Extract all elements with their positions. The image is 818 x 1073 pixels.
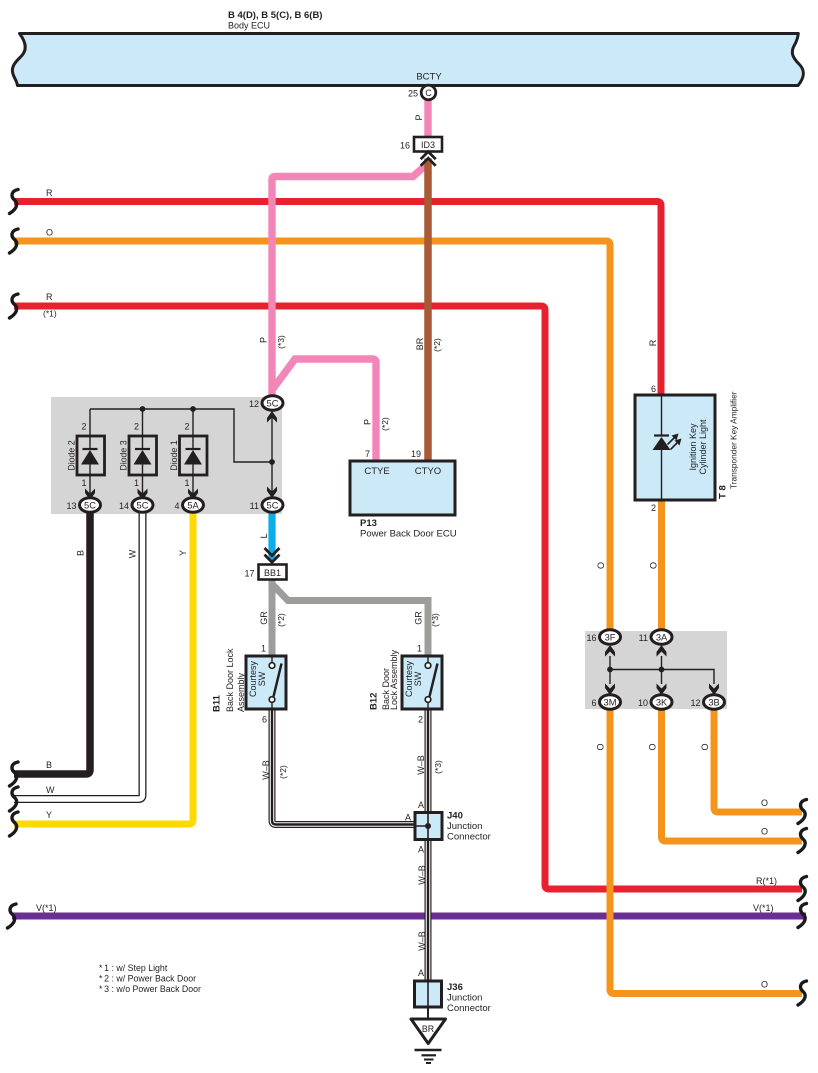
svg-text:Connector: Connector (447, 832, 491, 843)
wire O (T8 pin2 to 3A) (658, 498, 665, 632)
svg-text:5C: 5C (267, 399, 279, 409)
svg-text:O: O (700, 743, 710, 750)
svg-text:2: 2 (184, 422, 189, 432)
wire W-B (*2) (B11 pin6 to J40) (272, 709, 416, 825)
svg-text:V(*1): V(*1) (753, 903, 774, 913)
cut squiggle O right (3B) (798, 800, 807, 824)
wire Y (yellow) (14, 505, 193, 824)
svg-text:(*2): (*2) (276, 613, 286, 627)
svg-text:13: 13 (66, 501, 76, 511)
junction dots (diode block) (140, 406, 146, 412)
diode D3 (119, 422, 157, 489)
svg-text:B: B (46, 760, 52, 770)
cut squiggle O right (3K) (798, 829, 807, 853)
svg-text:Y: Y (46, 810, 52, 820)
svg-text:* 3 : w/o Power Back Door: * 3 : w/o Power Back Door (99, 984, 201, 994)
svg-text:C: C (425, 88, 432, 98)
cut squiggle R top left (10, 190, 19, 214)
svg-text:Diode 2: Diode 2 (67, 440, 77, 470)
ground BR triangle (411, 1019, 446, 1044)
svg-text:BB1: BB1 (264, 568, 281, 578)
svg-text:6: 6 (591, 698, 596, 708)
oval 10-3K (638, 695, 672, 710)
label B11 (212, 648, 247, 712)
svg-text:CTYO: CTYO (415, 466, 441, 477)
svg-text:V(*1): V(*1) (36, 903, 57, 913)
svg-text:3M: 3M (604, 698, 617, 708)
svg-text:P: P (259, 337, 269, 343)
svg-text:14: 14 (119, 501, 129, 511)
arrow into 4-5A (188, 489, 198, 501)
svg-text:P: P (363, 419, 373, 425)
svg-text:1: 1 (261, 644, 266, 654)
svg-text:O: O (649, 562, 659, 569)
svg-text:P: P (414, 114, 424, 120)
svg-text:12: 12 (690, 698, 700, 708)
wire GR (*2) (BB1 to B11) (269, 580, 276, 656)
svg-text:R(*1): R(*1) (756, 876, 777, 886)
svg-text:W: W (46, 785, 55, 795)
svg-text:B12: B12 (369, 693, 380, 710)
label B12 (369, 649, 399, 710)
svg-text:5C: 5C (84, 501, 96, 511)
connector BB1 (244, 565, 286, 580)
svg-text:(*3): (*3) (276, 335, 286, 349)
oval 13-5C (66, 498, 100, 513)
Body ECU bar (12, 34, 803, 86)
svg-text:Cylinder Light: Cylinder Light (698, 419, 708, 475)
svg-text:SW: SW (257, 671, 267, 686)
svg-text:T 8: T 8 (718, 485, 729, 499)
svg-text:5C: 5C (137, 501, 149, 511)
switch B11 (246, 644, 286, 725)
svg-text:7: 7 (365, 449, 370, 459)
label W-B (*3) (416, 755, 443, 775)
svg-text:11: 11 (250, 501, 259, 511)
svg-text:Assembly: Assembly (236, 672, 246, 712)
wire W-B (J40 to J36) (425, 839, 432, 981)
svg-text:Connector: Connector (447, 1003, 491, 1014)
svg-text:CTYE: CTYE (364, 466, 389, 477)
arrow into 3A (up) (657, 645, 667, 657)
wire BR (ID3 to CTYO) (424, 159, 432, 462)
svg-text:Body ECU: Body ECU (228, 21, 270, 31)
svg-text:16: 16 (586, 633, 596, 643)
cut squiggle R(*1) right (798, 877, 807, 901)
wire GR (*3) (BB1 branch to B12) (272, 584, 428, 656)
cut squiggle B left (10, 762, 19, 786)
oval 11-3A (639, 630, 672, 645)
svg-text:5A: 5A (187, 501, 199, 511)
svg-text:19: 19 (411, 449, 421, 459)
connector block background (3F/3A block) (585, 631, 727, 709)
connector block background (diode block) (51, 397, 282, 514)
label T8 (718, 391, 739, 499)
arrow into 3F (up) (605, 645, 615, 657)
cut squiggle R(*1) left (10, 294, 19, 318)
svg-text:Back Door Lock: Back Door Lock (225, 648, 235, 712)
svg-text:* 2 : w/ Power Back Door: * 2 : w/ Power Back Door (99, 974, 196, 984)
wire L (11-5C to BB1) (268, 511, 275, 561)
chevrons (below ID3) (421, 152, 436, 166)
junction dots (3F/3A block) (607, 667, 613, 673)
oval 16-3F (586, 630, 620, 645)
arrow into 13-5C (85, 489, 95, 501)
label BR (*2) (415, 337, 442, 352)
svg-text:A: A (418, 968, 424, 978)
pin 25 C (408, 85, 436, 100)
svg-text:O: O (761, 798, 768, 808)
arrow into 3K (down) (657, 684, 667, 696)
svg-text:2: 2 (418, 715, 423, 725)
svg-text:A: A (418, 800, 424, 810)
wire R (top) (14, 202, 661, 396)
svg-text:B11: B11 (212, 694, 223, 712)
arrow into 11-5C (down) (267, 487, 277, 499)
svg-text:6: 6 (651, 384, 656, 394)
svg-text:Junction: Junction (447, 821, 482, 832)
svg-text:2: 2 (651, 503, 656, 513)
junction J40 (405, 800, 491, 855)
svg-text:SW: SW (413, 671, 423, 686)
cut squiggle Y left (10, 812, 19, 836)
chevrons (above BB1, down) (265, 548, 280, 562)
wire V (*1) (12, 913, 806, 920)
oval 12-5C (249, 396, 283, 411)
wire O (3M to bottom right) (610, 705, 802, 994)
svg-text:3F: 3F (605, 633, 616, 643)
cut squiggle W left (10, 787, 19, 811)
label P (*3) (259, 335, 287, 349)
svg-text:17: 17 (244, 569, 254, 579)
svg-text:(*3): (*3) (433, 760, 443, 774)
svg-text:1: 1 (417, 644, 422, 654)
oval 6-3M (591, 695, 620, 710)
label P (*2) (363, 417, 391, 431)
svg-text:W–B: W–B (417, 931, 427, 951)
node bus (diode block internal wiring) (90, 409, 272, 500)
svg-text:2: 2 (134, 422, 139, 432)
svg-text:(*2): (*2) (432, 338, 442, 352)
svg-text:25: 25 (408, 89, 418, 99)
svg-text:O: O (596, 562, 606, 569)
label GR (*2) (259, 611, 286, 627)
svg-text:11: 11 (639, 633, 648, 643)
cut squiggle O right (3M) (798, 981, 807, 1005)
svg-text:3K: 3K (656, 698, 668, 708)
svg-text:W: W (128, 549, 138, 558)
wire W-B (*3) (B12 pin2 to J40) (425, 709, 432, 813)
svg-text:(*1): (*1) (43, 309, 57, 319)
wire O (3K to right edge) (662, 705, 803, 841)
svg-text:O: O (761, 980, 768, 990)
svg-text:2: 2 (81, 422, 86, 432)
svg-text:A: A (405, 813, 411, 823)
svg-text:ID3: ID3 (421, 140, 435, 150)
svg-text:O: O (596, 743, 606, 750)
arrow into 3B (down) (709, 684, 719, 696)
svg-text:GR: GR (414, 611, 424, 625)
svg-text:O: O (46, 228, 53, 238)
svg-text:(*2): (*2) (380, 417, 390, 431)
wire P (*2) (branch to CTYE) (272, 359, 376, 461)
wire B (black) (14, 505, 90, 774)
wire O (top) (14, 241, 610, 631)
svg-text:BR: BR (415, 337, 425, 350)
svg-text:16: 16 (400, 141, 410, 151)
ground wire (427, 1007, 429, 1019)
svg-text:Power Back Door ECU: Power Back Door ECU (360, 529, 457, 540)
connector ID3 (400, 137, 442, 152)
svg-text:Diode 3: Diode 3 (119, 440, 129, 470)
svg-text:1: 1 (81, 478, 86, 488)
svg-text:P13: P13 (360, 518, 377, 529)
svg-text:* 1 : w/ Step Light: * 1 : w/ Step Light (99, 963, 168, 973)
svg-text:3A: 3A (656, 633, 668, 643)
svg-text:Junction: Junction (447, 993, 482, 1004)
node bus (3F/3A block internal wiring) (610, 656, 714, 684)
svg-text:(*3): (*3) (430, 613, 440, 627)
svg-text:Transponder Key Amplifier: Transponder Key Amplifier (729, 391, 739, 489)
wire P (*3) (ID3 to 12-5C) (272, 165, 426, 397)
svg-text:W–B: W–B (261, 760, 271, 780)
oval 14-5C (119, 498, 153, 513)
svg-text:O: O (648, 743, 658, 750)
svg-text:BR: BR (422, 1024, 434, 1034)
label GR (*3) (414, 611, 441, 627)
svg-text:4: 4 (174, 501, 179, 511)
svg-text:W–B: W–B (417, 865, 427, 885)
svg-text:Lock Assembly: Lock Assembly (389, 649, 399, 710)
arrow into 14-5C (138, 489, 148, 501)
svg-text:Diode 1: Diode 1 (169, 440, 179, 470)
oval 11-5C (250, 498, 283, 513)
svg-text:B: B (76, 550, 86, 556)
svg-text:3B: 3B (708, 698, 719, 708)
svg-text:GR: GR (259, 611, 269, 625)
svg-text:R: R (46, 188, 53, 198)
notes (99, 963, 201, 994)
svg-text:1: 1 (134, 478, 139, 488)
wire W (white) (14, 505, 143, 799)
svg-text:J36: J36 (447, 982, 463, 993)
svg-text:10: 10 (638, 698, 648, 708)
svg-text:A: A (418, 845, 424, 855)
amplifier T8 (635, 395, 715, 500)
switch B12 (402, 644, 442, 725)
svg-text:L: L (259, 533, 269, 538)
label R (*1) left (43, 292, 57, 319)
svg-text:12: 12 (249, 399, 259, 409)
diode D2 (67, 422, 105, 489)
ground symbol (415, 1050, 442, 1063)
wire P (BCTY to ID3) (424, 99, 431, 139)
oval 12-3B (690, 695, 724, 710)
svg-text:(*2): (*2) (278, 765, 288, 779)
wire O (3B to right edge) (714, 705, 802, 812)
svg-text:J40: J40 (447, 811, 463, 822)
svg-text:6: 6 (262, 715, 267, 725)
cut squiggle V left (8, 904, 17, 928)
svg-text:W–B: W–B (416, 755, 426, 775)
ECU P13 (350, 449, 457, 540)
diode D1 (169, 422, 207, 489)
arrow into 12-5C (up) (267, 411, 277, 423)
svg-text:O: O (761, 827, 768, 837)
svg-text:1: 1 (184, 478, 189, 488)
oval 4-5A (174, 498, 203, 513)
svg-text:5C: 5C (267, 501, 279, 511)
junction J36 (415, 968, 491, 1014)
cut squiggle O top left (10, 229, 19, 253)
label W-B (*2) (261, 760, 288, 780)
cut squiggle V right (798, 904, 807, 928)
wire R (*1) (14, 306, 802, 889)
svg-text:Y: Y (178, 550, 188, 556)
svg-text:R: R (46, 292, 53, 302)
svg-text:B 4(D), B 5(C), B 6(B): B 4(D), B 5(C), B 6(B) (228, 10, 322, 21)
svg-text:BCTY: BCTY (416, 72, 442, 83)
arrow into 3M (down) (605, 684, 615, 696)
svg-text:Ignition Key: Ignition Key (688, 423, 698, 471)
svg-text:R: R (648, 339, 658, 346)
